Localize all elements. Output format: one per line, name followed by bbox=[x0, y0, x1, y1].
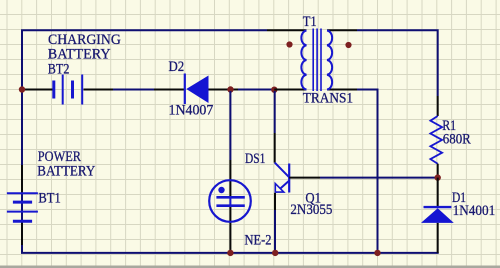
svg-text:BATTERY: BATTERY bbox=[37, 163, 95, 179]
battery BT2 pin left bbox=[22, 89, 53, 91]
battery BT2 pin right bbox=[84, 89, 114, 91]
diode D1 cathode bar bbox=[424, 206, 452, 208]
svg-text:1N4001: 1N4001 bbox=[453, 203, 496, 219]
svg-text:680R: 680R bbox=[443, 131, 471, 147]
lamp DS1 stub between electrodes bbox=[229, 197, 231, 206]
svg-text:2N3055: 2N3055 bbox=[290, 202, 332, 218]
svg-text:NE-2: NE-2 bbox=[245, 233, 272, 249]
diode D2 pin right bbox=[209, 89, 239, 91]
resistor R1 bbox=[430, 116, 442, 164]
svg-text:BT2: BT2 bbox=[48, 61, 70, 77]
resistor R1 pin bottom bbox=[437, 164, 439, 178]
svg-text:DS1: DS1 bbox=[245, 151, 265, 167]
diode D1 pin top bbox=[437, 178, 439, 206]
diode D2 triangle bbox=[186, 76, 208, 104]
wire left rail bbox=[21, 30, 23, 253]
transistor Q1 collector pin bbox=[274, 133, 276, 163]
transformer T1 secondary pin bottom bbox=[327, 89, 357, 91]
lamp DS1 pin bottom bbox=[229, 207, 231, 253]
diode D2 cathode bar bbox=[184, 74, 186, 105]
junction dot R1/D1/Q1 base bbox=[435, 174, 441, 180]
transformer T1 secondary pin top bbox=[327, 29, 357, 31]
battery BT1 pin top bbox=[21, 165, 23, 193]
transformer T1 secondary polarity dot bbox=[345, 42, 351, 48]
wire bottom rail bbox=[21, 252, 439, 254]
svg-text:1N4007: 1N4007 bbox=[169, 102, 214, 118]
wire Q1 base to R1/D1 node bbox=[320, 177, 438, 179]
lamp DS1 upper electrode bbox=[216, 196, 244, 199]
junction dot T1 primary / Q1 collector bbox=[271, 87, 277, 93]
battery BT2 bbox=[54, 75, 82, 105]
svg-text:T1: T1 bbox=[303, 14, 317, 30]
diode D1 triangle bbox=[421, 208, 454, 223]
transformer T1 secondary coil bbox=[327, 31, 332, 90]
lamp DS1 gas dot bbox=[218, 187, 224, 193]
wire DS1 top bbox=[229, 91, 231, 160]
wire D2 to T1 primary bbox=[236, 89, 274, 91]
transistor Q1 collector diagonal bbox=[275, 163, 290, 178]
junction dot D2/DS1 bbox=[227, 86, 233, 92]
node A wire BT2 to D2 bbox=[113, 89, 154, 91]
battery BT1 pin bottom bbox=[21, 223, 23, 245]
svg-text:BATTERY: BATTERY bbox=[48, 46, 111, 62]
wire top rail bbox=[21, 29, 267, 31]
lamp DS1 pin top bbox=[229, 160, 231, 196]
lamp DS1 circle bbox=[209, 180, 251, 222]
transformer T1 primary pin top bbox=[267, 29, 307, 31]
transistor Q1 base bar bbox=[288, 164, 290, 193]
wire Q1 emitter to bottom rail bbox=[274, 210, 276, 253]
lamp DS1 lower electrode bbox=[216, 204, 244, 207]
transformer T1 core bbox=[313, 29, 321, 92]
transistor Q1 emitter diagonal bbox=[276, 181, 289, 193]
svg-text:D2: D2 bbox=[169, 59, 185, 75]
transistor Q1 emitter pin bbox=[274, 193, 276, 210]
transformer T1 primary polarity dot bbox=[286, 41, 292, 47]
transistor Q1 emitter arrow bbox=[275, 184, 284, 193]
junction dot DS1 bottom bbox=[227, 250, 233, 256]
resistor R1 pin top bbox=[437, 96, 439, 116]
junction dot secondary bottom rail bbox=[374, 250, 380, 256]
wire Q1 collector from node A bbox=[274, 91, 276, 133]
transistor Q1 base pin bbox=[289, 177, 320, 179]
transformer T1 primary coil bbox=[301, 31, 306, 90]
svg-text:TRANS1: TRANS1 bbox=[303, 91, 353, 107]
diode D2 pin left bbox=[154, 89, 184, 91]
battery BT1 bbox=[7, 193, 38, 221]
diode D1 pin bottom bbox=[437, 223, 439, 253]
wire T1 secondary top to R1 bbox=[357, 30, 438, 96]
wire T1 secondary bottom drop bbox=[357, 90, 378, 253]
junction dot node A left bbox=[19, 86, 25, 92]
svg-text:BT1: BT1 bbox=[38, 191, 60, 207]
transformer T1 primary pin bottom bbox=[274, 89, 306, 91]
junction dot Q1 emitter bottom bbox=[272, 250, 278, 256]
